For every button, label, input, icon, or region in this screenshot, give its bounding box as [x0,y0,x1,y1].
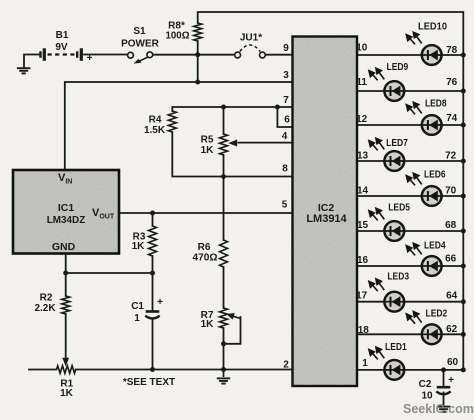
svg-text:14: 14 [357,186,369,197]
svg-text:1K: 1K [60,388,74,399]
svg-text:66: 66 [445,253,457,264]
svg-text:LED3: LED3 [387,272,409,283]
svg-text:1.5K: 1.5K [144,125,166,136]
svg-text:1: 1 [134,313,140,324]
svg-text:2.2K: 2.2K [34,303,56,314]
svg-text:6: 6 [284,115,290,126]
svg-text:LED5: LED5 [388,202,410,213]
svg-text:*SEE TEXT: *SEE TEXT [123,377,175,388]
svg-text:C2: C2 [419,379,432,390]
svg-text:LED1: LED1 [385,342,407,353]
svg-text:R4: R4 [149,115,162,126]
svg-text:B1: B1 [56,30,69,41]
svg-text:10: 10 [356,43,368,54]
svg-text:LED7: LED7 [386,138,408,149]
svg-text:18: 18 [358,325,370,336]
svg-text:100Ω: 100Ω [166,31,190,42]
svg-text:R5: R5 [201,135,214,146]
svg-text:1K: 1K [132,241,146,252]
svg-text:GND: GND [52,241,76,253]
svg-text:LED6: LED6 [424,169,446,180]
svg-text:2: 2 [283,360,289,371]
svg-text:70: 70 [445,186,457,197]
svg-text:15: 15 [357,220,369,231]
svg-text:72: 72 [445,151,457,162]
svg-text:470Ω: 470Ω [193,252,218,263]
svg-text:1K: 1K [201,145,215,156]
svg-text:8: 8 [282,163,288,174]
svg-text:JU1*: JU1* [240,33,262,44]
svg-text:LED10: LED10 [418,21,447,32]
svg-text:LED4: LED4 [424,241,446,252]
svg-text:R2: R2 [40,293,53,304]
svg-text:+: + [157,297,163,308]
svg-text:LED8: LED8 [425,99,447,110]
svg-text:11: 11 [356,77,367,88]
svg-text:7: 7 [283,95,289,106]
svg-text:IC1: IC1 [58,202,75,214]
svg-text:68: 68 [445,220,457,231]
svg-text:LM34DZ: LM34DZ [47,214,86,226]
svg-text:LED9: LED9 [387,62,409,73]
svg-text:60: 60 [447,357,459,368]
svg-text:C1: C1 [131,301,144,312]
svg-text:+: + [87,53,93,64]
svg-text:S1: S1 [133,26,146,37]
svg-text:10: 10 [421,391,433,402]
svg-text:5: 5 [282,200,288,211]
svg-text:3: 3 [283,70,289,81]
svg-text:78: 78 [446,45,458,56]
svg-text:64: 64 [446,291,458,302]
svg-text:12: 12 [356,114,368,125]
svg-text:POWER: POWER [121,39,160,50]
svg-text:1: 1 [362,358,368,369]
svg-text:74: 74 [446,113,458,124]
svg-text:+: + [448,375,454,386]
svg-text:13: 13 [357,151,369,162]
svg-text:LM3914: LM3914 [306,213,347,225]
svg-text:4: 4 [282,131,288,142]
svg-text:1K: 1K [201,319,215,330]
svg-text:17: 17 [356,291,368,302]
svg-text:76: 76 [446,77,458,88]
svg-text:9V: 9V [55,42,68,53]
svg-text:62: 62 [446,324,458,335]
svg-text:16: 16 [357,255,369,266]
svg-text:9: 9 [283,43,289,54]
svg-text:LED2: LED2 [426,309,448,320]
svg-text:SeekIC.com: SeekIC.com [403,402,474,416]
